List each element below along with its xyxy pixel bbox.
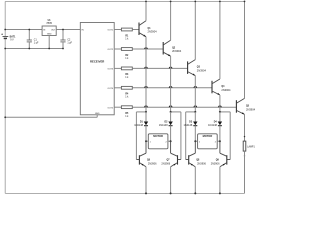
svg-text:2N3906: 2N3906 (211, 163, 220, 166)
resistor R3 (121, 67, 132, 70)
wire: ground bus under regulator (5, 48, 63, 50)
junction: motor M2 terminal 1 node (194, 140, 196, 142)
resistor R2 (121, 48, 132, 51)
label Q5 2N3904 (246, 106, 256, 112)
wire hop: OUT4 wire over column 3 (194, 86, 197, 87)
svg-text:Q6: Q6 (147, 160, 151, 162)
label C1 value (34, 39, 39, 44)
wire: D1 cathode to motor terminal (145, 126, 147, 142)
label D1 1N4148 (134, 121, 143, 127)
svg-text:Q4: Q4 (221, 85, 225, 88)
svg-text:RECEIVER: RECEIVER (90, 59, 104, 63)
wire: bridge top left segment to Q8 base leg (186, 112, 196, 160)
label R3 value (125, 74, 129, 79)
label R1 value (125, 35, 129, 40)
svg-text:1N4148: 1N4148 (208, 124, 217, 127)
junction: D1 anode node (145, 111, 147, 113)
wire: R3 to Q3 base (132, 67, 187, 69)
node: lamp top terminal (244, 136, 245, 137)
wire: Q3 emitter column down to bridge (194, 76, 196, 112)
svg-text:Q3: Q3 (197, 67, 201, 69)
wire hop: OUT4 wire over column 1 (145, 86, 148, 87)
label Q6 2N3906 (147, 160, 157, 166)
transistor Q5 (236, 98, 244, 114)
svg-text:1 µF: 1 µF (34, 42, 39, 44)
junction: motor M1 terminal 2 node (170, 140, 172, 142)
junction: Q8 emitter at ground rail (194, 192, 196, 194)
wire: U1 OUT to receiver IN (node +5V) (56, 29, 80, 31)
wire: U1 GND pin to ground bus (48, 36, 50, 49)
svg-text:MOTOR: MOTOR (203, 134, 213, 138)
resistor R1 (121, 28, 132, 31)
junction: column 3 at +V rail (194, 1, 196, 3)
wire: receiver OUT5 to resistor R5 (114, 106, 121, 108)
wire: D3 cathode to motor terminal (194, 126, 196, 142)
junction: motor M1 terminal 1 node (145, 140, 147, 142)
svg-text:MOTOR: MOTOR (153, 134, 163, 138)
wire: Q9 emitter to ground rail (219, 167, 221, 194)
svg-text:2N3906: 2N3906 (197, 163, 206, 166)
resistor R5 (121, 106, 132, 109)
svg-text:2N3906: 2N3906 (148, 163, 157, 166)
wire: R5 to Q5 base (132, 106, 236, 108)
label Q2 2N3904 (172, 47, 182, 53)
voltage regulator U1 7805 (42, 26, 56, 36)
label R5 value (125, 113, 129, 118)
junction: C2 bottom (62, 48, 64, 50)
wire: D2 cathode to motor terminal (170, 126, 172, 142)
label R2 value (125, 55, 129, 60)
wire: motor M1 terminal 1 (146, 140, 148, 142)
svg-text:2N3904: 2N3904 (148, 30, 158, 34)
junction: receiver ground at left rail (4, 116, 6, 118)
label LAMP1 (247, 145, 255, 148)
junction: D4 anode node (219, 111, 221, 113)
wire: Q5 collector to +V rail (244, 1, 246, 98)
junction: C2 top (62, 29, 64, 31)
svg-text:OUT5: OUT5 (107, 107, 113, 109)
junction: VIN at left rail (4, 29, 6, 31)
receiver module U2 (80, 23, 114, 115)
label D2 1N4148 (159, 121, 168, 127)
wire: D3 anode lead (194, 112, 196, 122)
svg-text:1 µF: 1 µF (67, 42, 72, 44)
capacitor C2 (60, 30, 65, 49)
wire: bottom ground rail (5, 192, 244, 194)
junction: column 4 at +V rail (219, 1, 221, 3)
transistor Q4 (212, 79, 220, 95)
diode D3 1N4148 (193, 122, 197, 126)
transistor Q8 (186, 141, 196, 167)
diode D1 1N4148 (144, 122, 148, 126)
svg-text:1 k: 1 k (125, 76, 129, 79)
junction: U1 GND at ground bus (48, 48, 50, 50)
svg-text:BAT1: BAT1 (10, 35, 17, 38)
label Q8 2N3906 (196, 160, 206, 166)
node: lamp bottom terminal (244, 155, 245, 156)
svg-text:OUT4: OUT4 (107, 88, 113, 90)
label Q9 2N3906 (211, 160, 220, 166)
transistor Q7 (171, 141, 181, 167)
wire: Q2 emitter column down to bridge (170, 56, 172, 112)
wire: Q8 emitter to ground rail (194, 167, 196, 194)
junction: Q7 emitter at ground rail (170, 192, 172, 194)
svg-text:2N3906: 2N3906 (161, 163, 170, 166)
lamp LAMP1 (243, 141, 246, 151)
wire: lamp to ground rail (244, 151, 246, 193)
label D3 1N4148 (184, 121, 193, 127)
label Q7 2N3906 (161, 160, 170, 166)
svg-text:1N4148: 1N4148 (134, 124, 143, 127)
diode D4 1N4148 (218, 122, 222, 126)
wire: right border rail to Q5 collector (244, 1, 246, 98)
wire: R2 to Q2 base (132, 48, 163, 50)
transistor Q9 (220, 141, 230, 167)
wire: Q4 collector to +V rail (219, 1, 221, 79)
junction: column 1 at +V rail (145, 1, 147, 3)
wire: receiver OUT2 to resistor R2 (114, 48, 121, 50)
label D4 1N4148 (208, 120, 217, 127)
junction: D3 anode node (194, 111, 196, 113)
svg-text:2N3904: 2N3904 (197, 69, 207, 73)
wire: +V top border rail (5, 0, 244, 2)
svg-text:C2: C2 (67, 39, 71, 41)
transistor Q6 (136, 141, 146, 167)
svg-text:OUT: OUT (51, 30, 56, 32)
wire: Q4 emitter column down to bridge (219, 95, 221, 112)
junction: D2 anode node (170, 111, 172, 113)
junction: C1 top (28, 29, 30, 31)
svg-text:Q9: Q9 (216, 160, 220, 162)
junction: column 2 at +V rail (170, 1, 172, 3)
junction: motor M2 terminal 2 node (219, 140, 221, 142)
wire: R4 to Q4 base (132, 87, 212, 89)
wire: receiver OUT1 to resistor R1 (114, 29, 121, 31)
wire: bridge top left segment to Q6 base leg (136, 112, 146, 160)
svg-text:1 k: 1 k (125, 115, 129, 118)
svg-text:C1: C1 (34, 39, 38, 41)
wire: receiver GND pin to left rail (5, 115, 97, 118)
wire: receiver OUT4 to resistor R4 (114, 87, 121, 89)
svg-text:1 k: 1 k (125, 37, 129, 40)
wire hop: OUT3 wire over column 1 (145, 67, 148, 68)
svg-text:9 V: 9 V (10, 40, 14, 42)
label Q3 2N3904 (197, 67, 207, 73)
svg-text:Q8: Q8 (196, 160, 200, 162)
wire: bridge top right segment to Q7 base leg (171, 112, 181, 160)
wire: Q5 emitter to lamp (244, 114, 246, 141)
battery BAT1 (1, 33, 8, 38)
wire: R1 to Q1 base (132, 29, 139, 31)
motor M2 (198, 134, 218, 149)
capacitor C1 (27, 30, 32, 49)
wire: Q1 emitter column down to bridge (145, 37, 147, 112)
wire: motor M2 terminal 1 (195, 140, 197, 142)
svg-text:GND: GND (95, 113, 100, 115)
svg-text:Q2: Q2 (172, 47, 176, 49)
wire hop: OUT4 wire over column 2 (169, 87, 172, 88)
wire: motor M2 terminal 2 (217, 140, 220, 142)
wire hop: OUT5 wire over column 2 (169, 106, 172, 107)
transistor Q1 (139, 21, 146, 37)
svg-text:2N3904: 2N3904 (172, 49, 182, 53)
diode D2 1N4148 (168, 122, 172, 126)
wire: Q6 emitter to ground rail (145, 167, 147, 194)
svg-text:Q5: Q5 (246, 106, 250, 108)
junction: ground bus at left rail (4, 48, 6, 50)
wire: Q7 emitter to ground rail (170, 167, 172, 194)
svg-text:Q1: Q1 (148, 28, 152, 30)
svg-text:OUT1: OUT1 (107, 30, 113, 32)
label C2 value (67, 39, 72, 44)
svg-text:1 k: 1 k (125, 96, 129, 99)
svg-text:OUT3: OUT3 (107, 69, 113, 71)
junction: column 5 at +V rail (244, 1, 246, 3)
wire: left battery rail (lower, ground) (4, 39, 6, 194)
label Q4 2N3904 (221, 85, 231, 92)
wire hop: OUT5 wire over column 4 (219, 106, 222, 107)
svg-text:2N3904: 2N3904 (221, 88, 231, 92)
svg-text:LAMP1: LAMP1 (247, 145, 255, 148)
svg-text:Q7: Q7 (166, 160, 170, 162)
label R4 value (125, 93, 129, 99)
motor M1 (148, 134, 168, 149)
wire: battery + to regulator IN (node VIN) (5, 29, 42, 31)
resistor R4 (121, 86, 132, 89)
wire: D4 cathode to motor terminal (219, 126, 221, 142)
wire: receiver OUT3 to resistor R3 (114, 67, 121, 69)
wire: bridge top right segment to Q9 base leg (220, 112, 230, 160)
wire: motor M1 terminal 2 (168, 140, 171, 142)
wire: D4 anode lead (219, 112, 221, 122)
junction: Q9 emitter at ground rail (219, 192, 221, 194)
label Q1 2N3904 (148, 28, 158, 34)
wire: D2 anode lead (170, 112, 172, 122)
wire: left battery rail (upper) (4, 1, 6, 36)
svg-text:OUT2: OUT2 (107, 49, 113, 51)
wire: Q2 collector to +V rail (170, 1, 172, 40)
wire hop: OUT3 wire over column 2 (169, 67, 172, 68)
svg-text:GND: GND (47, 34, 52, 36)
wire hop: OUT5 wire over column 3 (194, 106, 197, 107)
transistor Q3 (188, 60, 196, 76)
wire hop: OUT2 wire over column 1 (145, 48, 148, 49)
label BAT1 value (10, 35, 17, 41)
junction: C1 bottom (28, 48, 30, 50)
label U1 7805 (46, 20, 52, 25)
svg-text:2N3904: 2N3904 (246, 107, 256, 111)
svg-text:1 k: 1 k (125, 57, 129, 60)
wire: D1 anode lead (145, 112, 147, 122)
transistor Q2 (163, 40, 170, 56)
svg-text:1N4148: 1N4148 (159, 124, 168, 127)
junction: Q6 emitter at ground rail (145, 192, 147, 194)
wire: Q1 collector to +V rail (145, 1, 147, 20)
svg-text:1N4148: 1N4148 (184, 124, 193, 127)
wire: Q3 collector to +V rail (194, 1, 196, 59)
wire hop: OUT5 wire over column 1 (145, 106, 148, 107)
svg-text:7805: 7805 (46, 21, 52, 25)
